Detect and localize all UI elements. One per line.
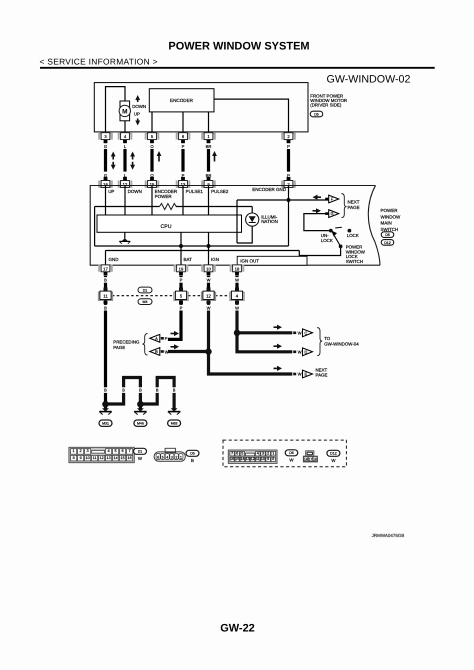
svg-text:LOCK: LOCK	[347, 233, 359, 238]
svg-text:B: B	[191, 458, 194, 463]
svg-text:JRMWA0476GB: JRMWA0476GB	[372, 533, 405, 538]
svg-text:W: W	[298, 330, 302, 335]
svg-text:B: B	[104, 305, 107, 310]
svg-text:A: A	[155, 336, 158, 341]
svg-text:GW-WINDOW-04: GW-WINDOW-04	[324, 341, 359, 346]
svg-text:W: W	[207, 305, 211, 310]
svg-text:POWER: POWER	[381, 208, 399, 213]
svg-text:D12: D12	[330, 452, 337, 456]
svg-text:CPU: CPU	[161, 224, 172, 230]
svg-text:SWITCH: SWITCH	[381, 227, 399, 232]
svg-text:DOWN: DOWN	[128, 189, 142, 194]
svg-text:7: 7	[231, 450, 233, 455]
svg-text:12: 12	[251, 457, 255, 461]
svg-text:B: B	[156, 388, 159, 393]
svg-text:4: 4	[166, 455, 168, 459]
svg-text:M: M	[122, 108, 127, 115]
svg-text:D5: D5	[190, 452, 195, 456]
svg-text:C: C	[304, 330, 307, 335]
svg-text:2: 2	[267, 450, 269, 455]
svg-text:PAGE: PAGE	[113, 345, 125, 350]
svg-text:15: 15	[121, 456, 125, 460]
svg-text:G: G	[330, 211, 333, 216]
svg-text:M46: M46	[137, 422, 144, 426]
svg-text:W: W	[207, 278, 211, 283]
svg-text:D: D	[304, 349, 307, 354]
svg-text:W: W	[235, 305, 239, 310]
svg-text:11: 11	[103, 293, 108, 298]
svg-text:2: 2	[80, 448, 82, 453]
svg-text:16: 16	[313, 457, 317, 461]
svg-text:5: 5	[241, 450, 243, 455]
svg-text:5: 5	[115, 448, 117, 453]
svg-text:14: 14	[240, 457, 244, 461]
svg-text:6: 6	[157, 455, 159, 459]
svg-text:3: 3	[87, 448, 89, 453]
svg-text:MAIN: MAIN	[381, 221, 392, 226]
svg-text:BAT: BAT	[184, 257, 193, 262]
svg-text:D6: D6	[385, 233, 390, 237]
svg-text:IGN: IGN	[211, 257, 219, 262]
svg-text:1: 1	[73, 448, 75, 453]
svg-text:10: 10	[261, 457, 265, 461]
svg-text:10: 10	[206, 266, 211, 271]
svg-text:10: 10	[86, 456, 90, 460]
svg-text:1: 1	[180, 455, 182, 459]
svg-text:UP: UP	[108, 189, 114, 194]
svg-text:7: 7	[129, 448, 131, 453]
svg-text:17: 17	[103, 266, 108, 271]
svg-text:B: B	[139, 388, 142, 393]
svg-text:18: 18	[235, 266, 240, 271]
svg-text:16: 16	[128, 456, 132, 460]
svg-text:W: W	[298, 349, 302, 354]
svg-text:8: 8	[272, 457, 274, 461]
svg-text:< SERVICE INFORMATION >: < SERVICE INFORMATION >	[40, 56, 158, 66]
svg-text:ENCODER: ENCODER	[170, 98, 194, 103]
svg-text:11: 11	[256, 457, 260, 461]
svg-text:PULSE2: PULSE2	[211, 189, 229, 194]
svg-text:W: W	[298, 372, 302, 377]
svg-text:M4: M4	[143, 300, 148, 304]
svg-text:P: P	[165, 336, 168, 341]
svg-text:D1: D1	[138, 450, 143, 454]
svg-text:P: P	[180, 278, 183, 283]
svg-text:13: 13	[107, 456, 111, 460]
svg-text:PAGE: PAGE	[348, 205, 360, 210]
svg-text:SWITCH: SWITCH	[346, 259, 363, 264]
svg-text:D5: D5	[314, 112, 319, 116]
svg-text:B: B	[104, 278, 107, 283]
svg-text:UP: UP	[134, 111, 140, 116]
svg-text:9: 9	[267, 457, 269, 461]
svg-text:B: B	[155, 349, 158, 354]
svg-text:(DRIVER SIDE): (DRIVER SIDE)	[310, 103, 342, 108]
svg-text:12: 12	[206, 293, 211, 298]
svg-text:D6: D6	[289, 451, 294, 455]
svg-text:2: 2	[175, 455, 177, 459]
svg-text:W: W	[235, 278, 239, 283]
svg-text:GW-22: GW-22	[220, 622, 255, 634]
svg-text:W: W	[165, 349, 169, 354]
svg-text:WINDOW: WINDOW	[381, 214, 401, 219]
svg-text:9: 9	[80, 456, 82, 460]
svg-text:13: 13	[245, 457, 249, 461]
svg-text:POWER WINDOW SYSTEM: POWER WINDOW SYSTEM	[168, 41, 309, 53]
svg-text:17: 17	[309, 457, 313, 461]
svg-text:3: 3	[171, 455, 173, 459]
svg-text:BR: BR	[206, 144, 212, 149]
svg-text:IGN OUT: IGN OUT	[240, 259, 259, 264]
svg-text:P: P	[182, 144, 185, 149]
svg-text:16: 16	[230, 457, 234, 461]
svg-text:GW-WINDOW-02: GW-WINDOW-02	[327, 73, 411, 85]
svg-text:11: 11	[93, 456, 97, 460]
svg-text:E: E	[304, 372, 307, 377]
svg-text:PAGE: PAGE	[316, 373, 328, 378]
svg-text:B: B	[122, 388, 125, 393]
svg-text:14: 14	[114, 456, 118, 460]
svg-text:B: B	[173, 388, 176, 393]
svg-text:PULSE1: PULSE1	[186, 189, 204, 194]
svg-text:D12: D12	[384, 241, 391, 245]
svg-text:G: G	[104, 144, 107, 149]
svg-text:6: 6	[122, 448, 124, 453]
svg-text:ENCODER GND: ENCODER GND	[252, 187, 287, 192]
svg-text:8: 8	[73, 456, 75, 460]
svg-text:19: 19	[179, 266, 184, 271]
svg-text:6: 6	[236, 450, 238, 455]
svg-text:P: P	[287, 144, 290, 149]
svg-text:B: B	[104, 388, 107, 393]
svg-text:1: 1	[272, 450, 274, 455]
svg-text:DOWN: DOWN	[132, 104, 146, 109]
svg-text:18: 18	[304, 457, 308, 461]
svg-text:3: 3	[262, 450, 264, 455]
svg-text:M63: M63	[171, 422, 178, 426]
svg-text:15: 15	[235, 457, 239, 461]
svg-text:POWER: POWER	[155, 194, 173, 199]
svg-text:M31: M31	[102, 422, 109, 426]
svg-text:LOCK: LOCK	[321, 238, 333, 243]
svg-text:P: P	[180, 305, 183, 310]
svg-text:GND: GND	[109, 257, 120, 262]
svg-text:NATION: NATION	[261, 219, 278, 224]
svg-text:5: 5	[162, 455, 164, 459]
svg-text:12: 12	[100, 456, 104, 460]
svg-text:D1: D1	[143, 288, 148, 292]
